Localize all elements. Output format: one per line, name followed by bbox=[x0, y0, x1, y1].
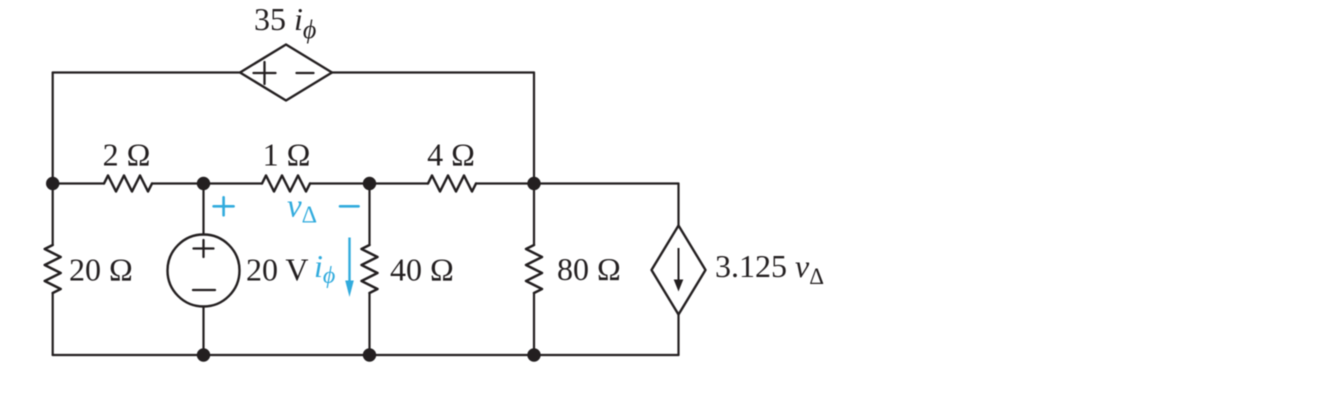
wire main horizontal segment d bbox=[476, 182, 679, 184]
node dot left main bbox=[46, 177, 59, 190]
resistor 1ohm zigzag bbox=[262, 176, 310, 192]
independent voltage source 20V circle bbox=[168, 235, 240, 307]
wire top-left horizontal bbox=[53, 71, 240, 73]
dependent current source 3.125 v-delta diamond bbox=[652, 226, 706, 315]
wire main horizontal segment c bbox=[310, 182, 428, 184]
wire main horizontal segment b bbox=[152, 182, 262, 184]
wire main horizontal segment a bbox=[53, 182, 104, 184]
wire 40ohm branch upper bbox=[368, 184, 370, 246]
minus sign inside circle bbox=[193, 289, 215, 291]
plus sign inside circle bbox=[194, 240, 214, 257]
svg-text:80 Ω: 80 Ω bbox=[557, 251, 621, 287]
svg-text:4 Ω: 4 Ω bbox=[427, 137, 475, 173]
wire voltage-source branch lower bbox=[202, 307, 204, 356]
arrow inside current source diamond bbox=[674, 248, 684, 292]
svg-text:35 iϕ: 35 iϕ bbox=[254, 1, 316, 44]
svg-text:20 Ω: 20 Ω bbox=[69, 252, 133, 288]
blue minus sign of v-delta bbox=[340, 205, 359, 208]
node dot C bottom bbox=[527, 348, 540, 361]
blue plus sign of v-delta bbox=[214, 197, 234, 215]
svg-text:1 Ω: 1 Ω bbox=[263, 137, 311, 173]
wire top-right horizontal bbox=[332, 71, 534, 73]
svg-text:3.125 vΔ: 3.125 vΔ bbox=[715, 248, 824, 289]
wire right-top rail bbox=[533, 73, 535, 184]
resistor 2ohm zigzag bbox=[104, 176, 152, 192]
wire voltage-source branch upper bbox=[202, 184, 204, 235]
svg-text:20 V: 20 V bbox=[246, 252, 309, 288]
wire 40ohm branch lower bbox=[368, 294, 370, 356]
resistor 40ohm zigzag bbox=[362, 245, 378, 293]
node dot B bottom bbox=[363, 348, 376, 361]
wire left rail upper bbox=[52, 73, 54, 246]
wire current-source branch lower bbox=[677, 315, 679, 356]
wire left rail lower bbox=[52, 294, 54, 356]
wire current-source branch upper bbox=[677, 184, 679, 226]
resistor 4ohm zigzag bbox=[428, 176, 476, 192]
resistor 80ohm zigzag bbox=[526, 245, 542, 293]
wire 80ohm branch lower bbox=[533, 294, 535, 356]
plus sign inside top diamond bbox=[254, 62, 276, 84]
node dot B main bbox=[363, 177, 376, 190]
wire 80ohm branch upper bbox=[533, 184, 535, 246]
svg-text:2 Ω: 2 Ω bbox=[103, 137, 151, 173]
svg-text:vΔ: vΔ bbox=[287, 189, 317, 229]
resistor 20ohm zigzag bbox=[45, 245, 61, 293]
dependent voltage source 35 i-phi diamond bbox=[240, 45, 332, 101]
node dot A bottom bbox=[197, 348, 210, 361]
svg-text:40 Ω: 40 Ω bbox=[390, 252, 454, 288]
wire bottom horizontal bbox=[53, 354, 679, 356]
blue arrow of i-phi bbox=[345, 238, 354, 298]
node dot C main bbox=[527, 177, 540, 190]
node dot A main bbox=[197, 177, 210, 190]
minus sign inside top diamond bbox=[297, 72, 314, 74]
svg-text:iϕ: iϕ bbox=[314, 248, 335, 289]
